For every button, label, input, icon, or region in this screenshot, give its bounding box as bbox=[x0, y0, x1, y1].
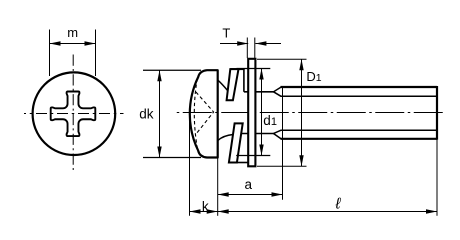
svg-text:dk: dk bbox=[139, 107, 154, 122]
spring washer bottom edge bbox=[237, 162, 248, 164]
shank lines bbox=[244, 91, 274, 93]
phillips recess cross bbox=[51, 92, 96, 137]
svg-text:T: T bbox=[222, 26, 230, 41]
svg-text:D1: D1 bbox=[306, 69, 321, 84]
m dimension line bbox=[50, 43, 96, 45]
svg-text:d1: d1 bbox=[263, 113, 277, 128]
a dimension bbox=[282, 88, 284, 200]
spring washer top leg bbox=[227, 69, 239, 100]
spring washer top edge bbox=[230, 68, 244, 70]
spring washer top right side bbox=[243, 69, 245, 92]
horizontal centerline bbox=[24, 113, 124, 115]
spring washer bottom leg bbox=[229, 123, 243, 162]
recess hidden arcs bbox=[194, 79, 197, 148]
screw end bbox=[436, 86, 438, 140]
k dimension bbox=[189, 116, 191, 216]
head outline bbox=[190, 70, 218, 157]
l dimension bbox=[436, 140, 438, 216]
flat washer bbox=[248, 59, 255, 167]
D1 dimension bbox=[257, 58, 307, 60]
svg-text:a: a bbox=[245, 177, 253, 192]
d1 dimension bbox=[237, 68, 271, 70]
thread taper bbox=[274, 87, 281, 96]
T dimension bbox=[246, 38, 248, 59]
side view centerline bbox=[176, 112, 446, 114]
recess cone hidden vee bbox=[196, 92, 214, 134]
m dimension extension lines bbox=[49, 30, 51, 77]
under-head fillets bbox=[218, 80, 228, 91]
thread crest lines bbox=[281, 86, 438, 88]
head circle bbox=[33, 72, 116, 155]
dk dimension bbox=[143, 69, 201, 71]
svg-text:k: k bbox=[202, 199, 209, 214]
thread root lines bbox=[281, 95, 438, 97]
vertical centerline bbox=[72, 55, 74, 171]
svg-text:m: m bbox=[67, 25, 78, 40]
svg-text:ℓ: ℓ bbox=[334, 196, 341, 213]
